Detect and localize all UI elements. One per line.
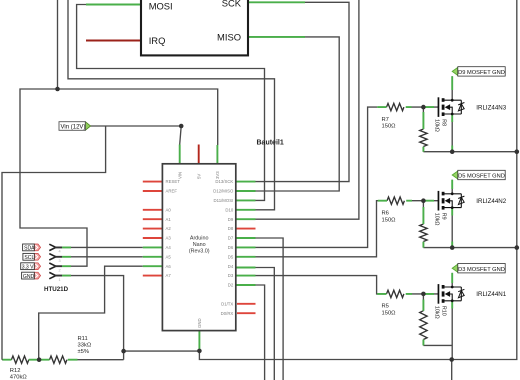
wire gate leads gray <box>412 107 439 294</box>
svg-text:D2: D2 <box>228 283 234 288</box>
IC Arduino Nano box <box>162 164 235 331</box>
wire MOSI net from U1 to D11 via left loop <box>77 5 265 201</box>
wire block2 drain flag lead, source drop, link to bus <box>423 180 516 248</box>
svg-text:IRLIZ44N1: IRLIZ44N1 <box>476 291 506 298</box>
wire SCL to A5 <box>56 256 143 258</box>
resistor R8 vertical zigzag <box>420 129 427 146</box>
svg-text:R10: R10 <box>440 306 446 316</box>
svg-text:(Rev3.0): (Rev3.0) <box>189 249 210 255</box>
svg-text:3: 3 <box>59 259 61 263</box>
label R11 <box>78 336 92 355</box>
flag SDA <box>34 244 40 251</box>
svg-text:D9 MOSFET GND: D9 MOSFET GND <box>458 70 505 76</box>
svg-text:D1/TX: D1/TX <box>221 301 233 306</box>
flag wire greens <box>451 76 453 283</box>
HTU pin green bits <box>62 247 71 275</box>
Arduino left green stubs A4 A5 A6 <box>143 247 163 266</box>
pin U1 MOSI stub green <box>86 4 141 6</box>
wire block3 source below to bottom crop <box>451 360 453 380</box>
svg-text:R7: R7 <box>382 117 389 123</box>
svg-text:Arduino: Arduino <box>190 236 209 242</box>
Arduino left red stubs <box>143 182 163 276</box>
svg-text:R6: R6 <box>382 211 389 217</box>
svg-text:A0: A0 <box>166 207 172 212</box>
Arduino bottom GND green stub <box>198 331 200 351</box>
node GND left <box>121 349 126 354</box>
svg-text:10kΩ: 10kΩ <box>434 119 440 132</box>
svg-text:Bauteil1: Bauteil1 <box>257 139 284 146</box>
wire A6 to divider tap <box>39 266 143 360</box>
label R8 rotated <box>434 119 447 132</box>
label R10 rotated <box>434 306 447 319</box>
svg-text:A2: A2 <box>166 226 172 231</box>
flag 3.3 V <box>34 263 40 270</box>
svg-text:D12/MISO: D12/MISO <box>213 189 234 194</box>
svg-text:AREF: AREF <box>166 189 178 194</box>
label R6 <box>382 211 397 224</box>
wire Vin branch down left side to R12 <box>2 126 106 360</box>
svg-text:2: 2 <box>59 268 61 272</box>
node bus1 <box>515 149 520 154</box>
HTU pin numbers <box>59 250 61 282</box>
vertical resistor greens <box>422 112 424 345</box>
svg-text:GND: GND <box>23 274 35 280</box>
svg-text:D7: D7 <box>228 236 234 241</box>
resistor R5 zigzag <box>387 290 404 297</box>
svg-text:3V3: 3V3 <box>215 171 220 179</box>
resistor R7 zigzag <box>387 103 404 110</box>
wire GND riser from bottom wire <box>123 351 125 360</box>
HTU dark pin lead bits <box>55 247 63 275</box>
svg-text:A6: A6 <box>166 264 172 269</box>
node 3V3 junction <box>55 87 60 92</box>
node GND pin <box>197 349 202 354</box>
resistor R6 zigzag <box>387 197 404 204</box>
Arduino right pin labels <box>213 179 234 316</box>
Arduino top 5V red stub <box>198 145 200 164</box>
svg-text:10kΩ: 10kΩ <box>434 306 440 319</box>
flag Vin 12V <box>59 122 91 131</box>
wire D9 net to top crop <box>256 0 359 219</box>
node Vin junction <box>179 124 184 129</box>
svg-text:33kΩ: 33kΩ <box>78 342 92 348</box>
resistor R10 vertical zigzag taller <box>420 311 427 340</box>
pin U1 IRQ dark red stub <box>86 40 141 42</box>
svg-text:R12: R12 <box>10 368 21 374</box>
wire D6 to R7 <box>256 107 378 247</box>
svg-text:R5: R5 <box>382 304 389 310</box>
svg-text:1: 1 <box>59 278 61 282</box>
svg-text:D10: D10 <box>225 207 233 212</box>
label R12 <box>10 368 28 380</box>
svg-text:D11/MOSI: D11/MOSI <box>214 198 234 203</box>
svg-text:150Ω: 150Ω <box>382 311 397 317</box>
wire SDA to A4 <box>56 246 143 248</box>
node source2 link <box>450 245 455 250</box>
svg-text:HTU21D: HTU21D <box>44 286 69 293</box>
node gate2 <box>421 198 426 203</box>
node divider tap <box>37 357 42 362</box>
svg-text:D3 MOSFET GND: D3 MOSFET GND <box>458 267 505 273</box>
svg-text:MISO: MISO <box>217 32 241 43</box>
wire GND net right run and right-edge bus <box>199 0 516 360</box>
wire SCK net U1 to D13 <box>248 2 349 181</box>
flag D9 MOSFET GND <box>452 67 505 76</box>
Arduino right red stubs D8 D1/TX D0/RX <box>236 229 256 314</box>
svg-text:470kΩ: 470kΩ <box>10 374 28 380</box>
svg-text:A4: A4 <box>166 245 172 250</box>
svg-text:D6: D6 <box>228 245 234 250</box>
wire D2 down to bottom crop <box>256 285 265 380</box>
svg-text:150Ω: 150Ω <box>382 217 397 223</box>
resistor R11 33k zigzag <box>50 356 67 363</box>
svg-text:D5 MOSFET GND: D5 MOSFET GND <box>458 174 505 180</box>
wire HTU GND down <box>56 276 124 352</box>
svg-text:4: 4 <box>59 250 61 254</box>
svg-text:A1: A1 <box>166 217 172 222</box>
svg-text:D8: D8 <box>228 226 234 231</box>
svg-text:A3: A3 <box>166 236 172 241</box>
red unconnected pin stubs <box>143 182 256 314</box>
pin U1 SCK stub green <box>248 1 305 3</box>
svg-text:5V: 5V <box>196 174 201 179</box>
label R7 <box>382 117 397 130</box>
HTU21D pin label flags <box>21 244 41 280</box>
wire D7 down to bottom crop <box>256 238 284 380</box>
svg-text:D5: D5 <box>228 254 234 259</box>
wire Vin diagonal to VIN pin <box>180 126 182 145</box>
wire 3V3 net HTU loop <box>20 89 218 266</box>
wire D5 to R6 <box>256 201 388 257</box>
wire MISO net U1 to D12 <box>248 37 339 191</box>
Arduino top pin labels rotated <box>177 171 220 328</box>
svg-text:MOSI: MOSI <box>149 0 173 11</box>
svg-text:IRLIZ44N3: IRLIZ44N3 <box>476 104 506 111</box>
wire block3 drain flag lead, source drop, R10 link <box>423 273 452 360</box>
wire D10 net from top crop <box>68 0 275 210</box>
svg-text:GND: GND <box>197 318 202 328</box>
svg-text:3.3 V: 3.3 V <box>22 264 34 270</box>
node gate1 <box>421 105 426 110</box>
transistor Q2 IRLIZ44N2 mosfet <box>438 191 465 211</box>
transistor Q1 IRLIZ44N3 mosfet <box>438 97 465 117</box>
svg-text:Nano: Nano <box>193 242 206 248</box>
wire block1 drain flag lead, source drop, link to bus <box>423 76 516 152</box>
svg-text:A7: A7 <box>166 273 172 278</box>
node source1 link <box>450 149 455 154</box>
flag SCL <box>34 253 40 260</box>
resistor R12 470k zigzag <box>11 356 28 363</box>
svg-text:Vin (12V): Vin (12V) <box>61 125 86 131</box>
svg-text:SCK: SCK <box>222 0 242 9</box>
source vertical greens <box>451 114 453 309</box>
svg-text:SDA: SDA <box>24 246 35 252</box>
Arduino top green stubs VIN 3V3 <box>180 145 218 164</box>
wire GND link left <box>124 350 200 352</box>
wire D3 to R5 <box>256 276 387 294</box>
svg-text:D4: D4 <box>228 264 234 269</box>
flag GND <box>34 272 40 279</box>
node GND block3 <box>449 357 454 362</box>
transistor Q3 IRLIZ44N1 mosfet <box>438 284 465 304</box>
svg-text:±5%: ±5% <box>78 349 90 355</box>
label R5 <box>382 304 397 317</box>
svg-text:IRQ: IRQ <box>149 35 166 46</box>
flag D5 MOSFET GND <box>452 170 505 179</box>
svg-text:D3: D3 <box>228 273 234 278</box>
resistor lead greens R12 R11 <box>3 359 78 361</box>
svg-text:A5: A5 <box>166 254 172 259</box>
svg-text:150Ω: 150Ω <box>382 124 397 130</box>
node gate3 <box>421 292 426 297</box>
HTU21D pin chevrons <box>49 244 56 279</box>
svg-text:R8: R8 <box>440 119 446 126</box>
svg-text:R11: R11 <box>78 336 88 342</box>
resistor lead greens R7 R6 R5 <box>377 107 412 294</box>
label R9 rotated <box>434 213 447 226</box>
gate greens after dots <box>425 107 434 294</box>
svg-text:SCL: SCL <box>24 255 34 261</box>
svg-text:IRLIZ44N2: IRLIZ44N2 <box>476 198 506 205</box>
pin U1 MISO stub green <box>248 36 305 38</box>
wire divider bottom segments <box>2 359 124 361</box>
svg-text:10kΩ: 10kΩ <box>434 213 440 226</box>
node bus2 <box>515 245 520 250</box>
svg-text:VIN: VIN <box>177 172 182 179</box>
svg-text:D0/RX: D0/RX <box>221 311 234 316</box>
wire Vin net horizontal <box>90 125 181 127</box>
flag D3 MOSFET GND <box>452 264 505 273</box>
resistor vertical connecting leads <box>422 107 424 345</box>
Arduino right green stubs <box>236 182 256 285</box>
Arduino left pin labels <box>166 179 181 278</box>
svg-text:D9: D9 <box>228 217 234 222</box>
wire 3V3 riser from top crop <box>57 0 59 89</box>
resistor R9 vertical zigzag <box>420 224 427 241</box>
IC U1 RF module box cropped at top <box>141 0 248 55</box>
svg-text:R9: R9 <box>440 213 446 220</box>
wire D4 down to bottom crop <box>256 268 275 380</box>
